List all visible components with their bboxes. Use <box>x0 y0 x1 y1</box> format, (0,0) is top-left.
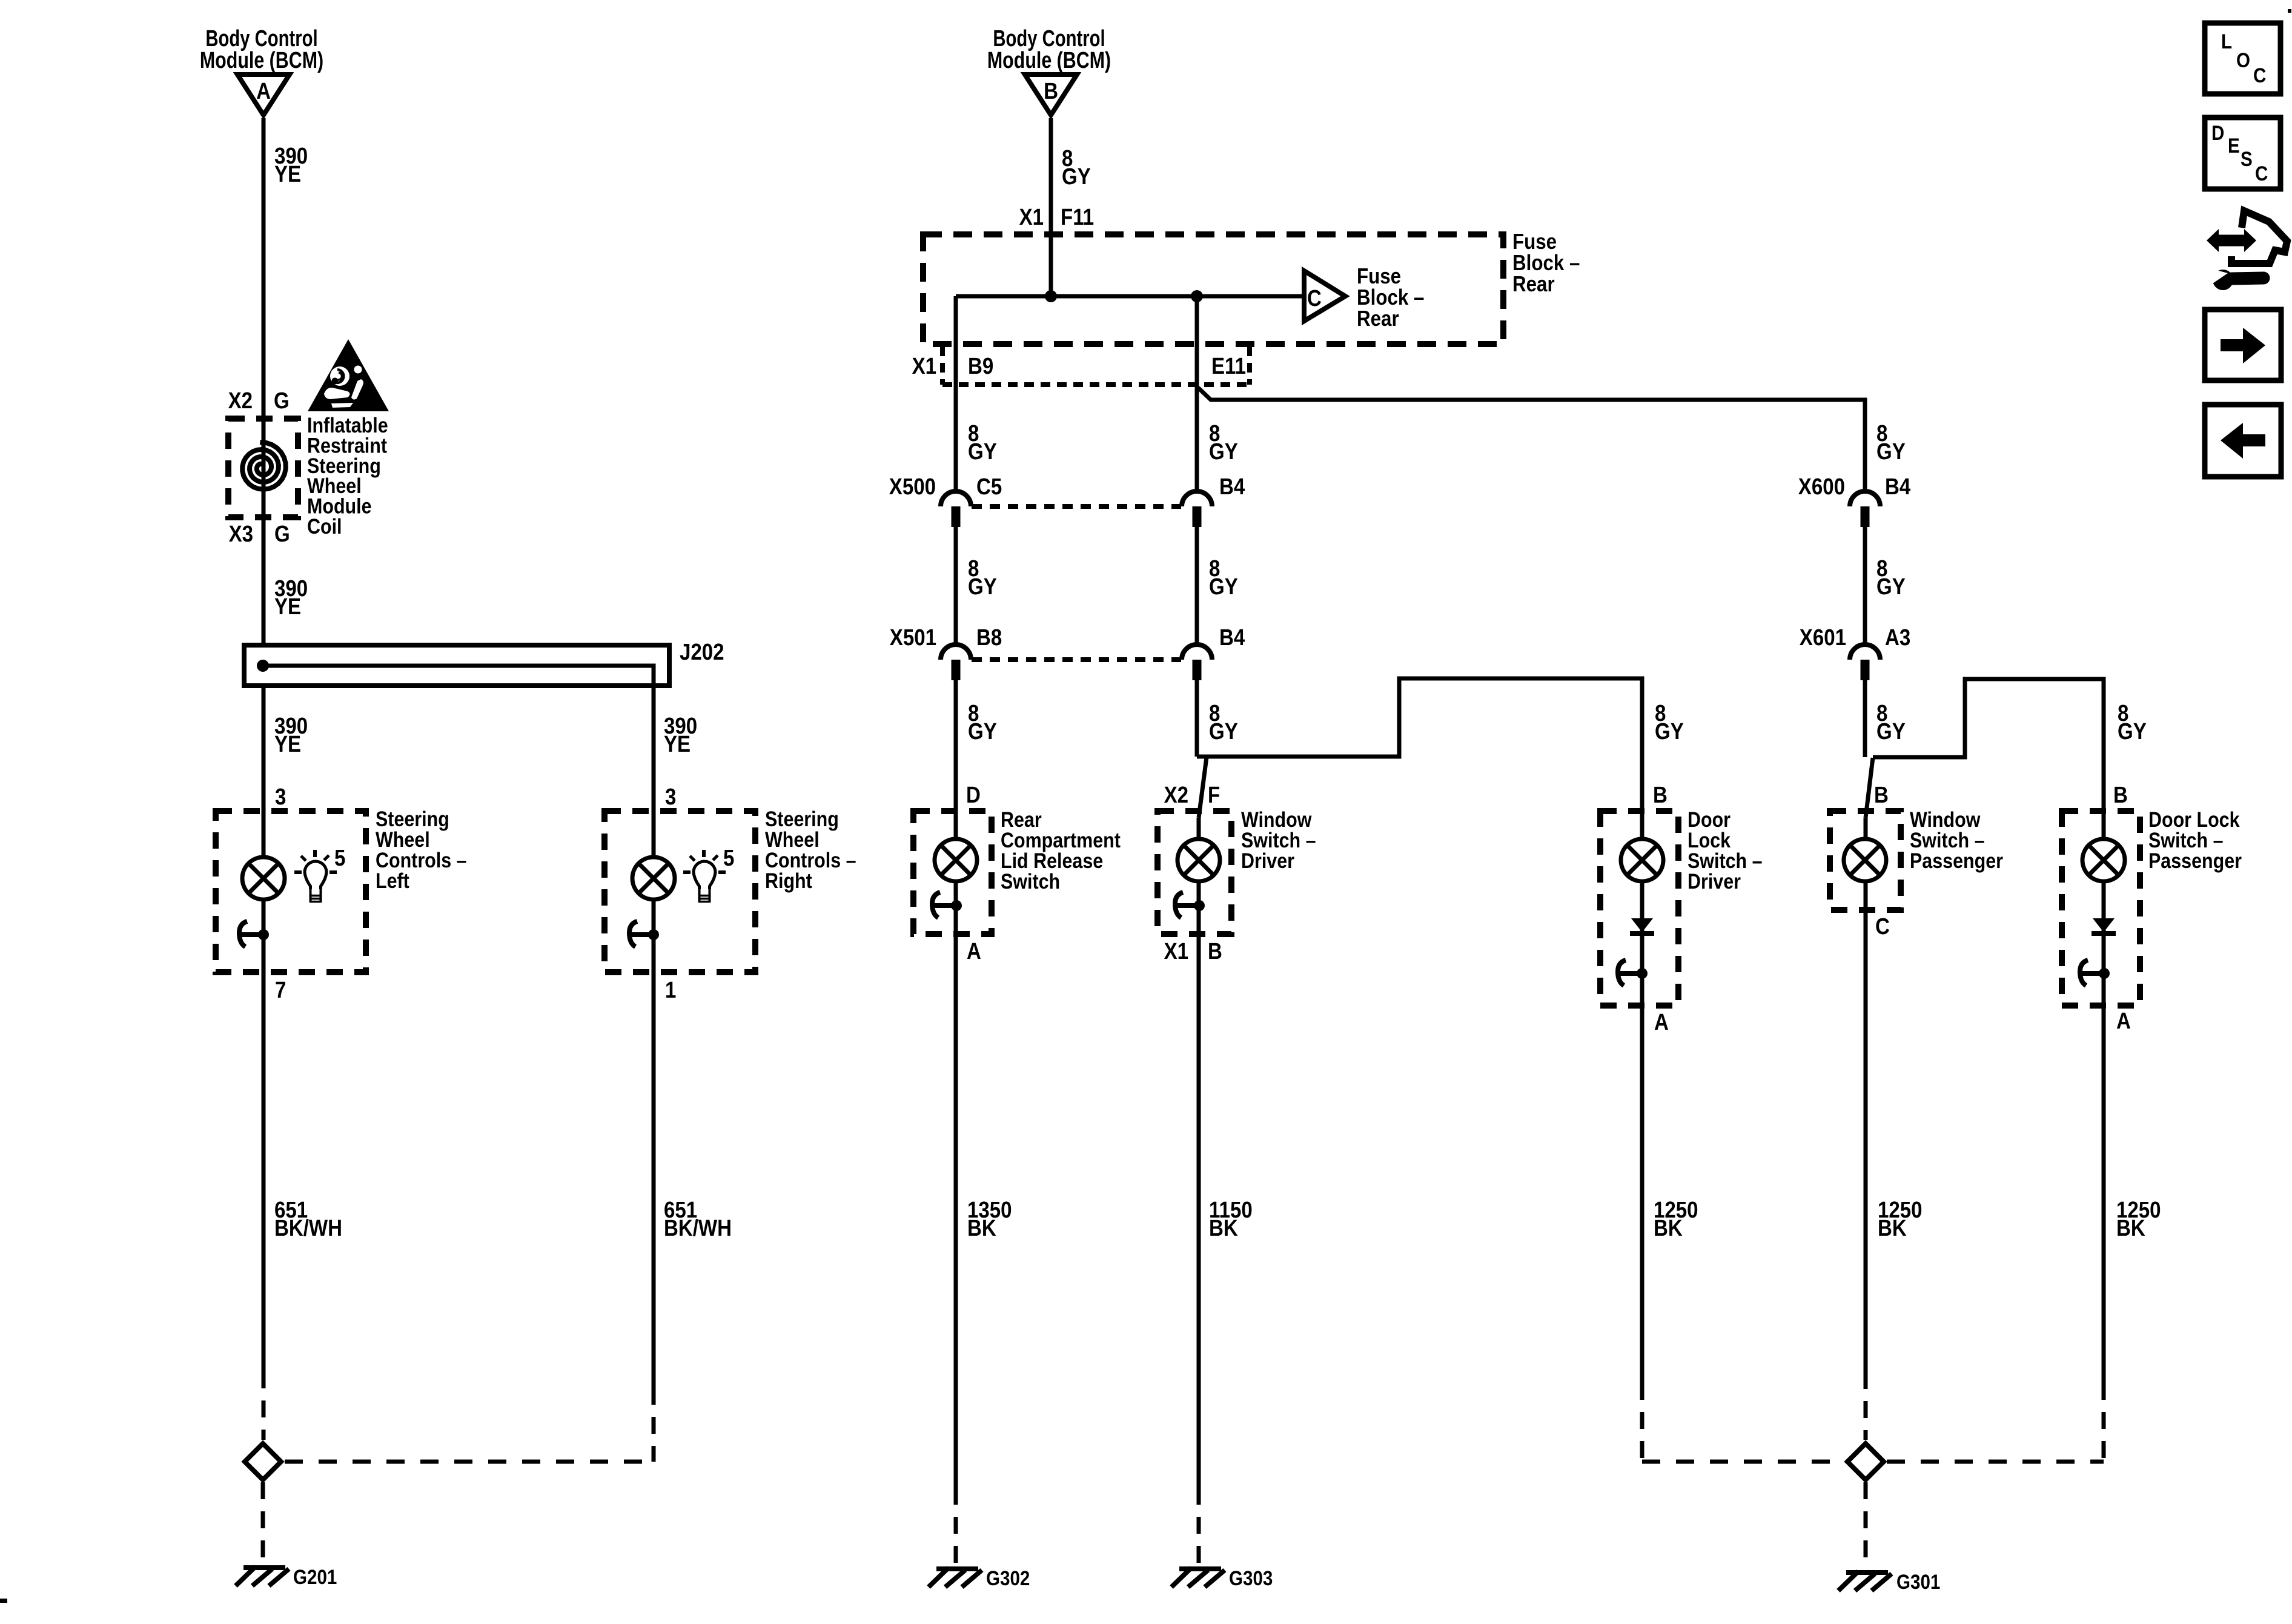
svg-text:Left: Left <box>376 869 409 892</box>
svg-text:Rear: Rear <box>1357 307 1399 331</box>
fuse block internal bus wire <box>956 294 1302 299</box>
J202 internal bus wire <box>263 666 654 686</box>
svg-text:B: B <box>1874 782 1889 808</box>
svg-text:BK: BK <box>2116 1215 2145 1241</box>
wire 390 YE from J202 to Steering Wheel Controls Left <box>262 686 266 972</box>
svg-text:L: L <box>2221 30 2232 53</box>
SWC left indicator lamp <box>242 857 285 900</box>
svg-text:B: B <box>2113 782 2128 808</box>
svg-text:A3: A3 <box>1885 625 1910 651</box>
svg-text:3: 3 <box>275 784 286 810</box>
fuse block connector X1 dashed box <box>940 346 945 385</box>
wire 1250 BK (door lock driver) <box>1640 1006 1644 1383</box>
svg-text:X2: X2 <box>228 388 253 414</box>
connector X501 B4 (right) <box>1182 645 1212 660</box>
wire 8 GY B9 to X500 <box>954 296 958 492</box>
BCM connector triangle B <box>1025 75 1077 115</box>
wire jog to door lock switch passenger <box>1873 679 2104 811</box>
component S1: Steering Wheel Controls - Left dashed box <box>216 811 366 972</box>
component S6: Window Switch - Passenger dashed box <box>1830 811 1901 910</box>
connector X601 A3 <box>1850 645 1880 660</box>
svg-text:E: E <box>2228 134 2240 157</box>
svg-text:3: 3 <box>665 784 676 810</box>
svg-text:G: G <box>274 388 290 414</box>
svg-text:G303: G303 <box>1229 1566 1273 1589</box>
wire 8 GY X501 to rear lid switch <box>954 680 958 811</box>
BCM connector triangle A <box>237 75 290 115</box>
window driver wire segment <box>1197 818 1201 934</box>
svg-text:Passenger: Passenger <box>1910 849 2003 872</box>
svg-text:D: D <box>2211 121 2224 144</box>
dashed wire to splice diamond (left) <box>262 1371 266 1440</box>
diagnostic icon wrench <box>2213 270 2233 290</box>
dashed wire to ground bus (driver) <box>1640 1383 1644 1462</box>
junction dot at E11 branch <box>1191 290 1203 302</box>
dashed wire diamond to G301 <box>1864 1482 1868 1569</box>
SWC left switch <box>239 921 247 947</box>
SWC right illumination bulb icon <box>694 861 715 889</box>
door lock passenger wire segment <box>2102 811 2106 1006</box>
svg-text:C: C <box>1875 913 1890 940</box>
forward arrow <box>2221 339 2244 351</box>
dashed ground bus horizontal (left of diamond) <box>1642 1460 1844 1464</box>
svg-text:Driver: Driver <box>1241 849 1294 872</box>
svg-text:7: 7 <box>275 977 286 1003</box>
svg-text:Passenger: Passenger <box>2148 849 2242 872</box>
svg-text:G301: G301 <box>1896 1570 1940 1593</box>
rear lid switch wire segment <box>954 811 958 934</box>
svg-text:B: B <box>1044 78 1058 104</box>
svg-text:Module (BCM): Module (BCM) <box>987 48 1111 73</box>
svg-text:Coil: Coil <box>307 514 342 538</box>
svg-text:YE: YE <box>274 161 301 187</box>
ground G302 <box>936 1566 978 1571</box>
wire diagonal into pin B (window passenger) <box>1866 758 1873 818</box>
svg-text:Right: Right <box>765 869 812 892</box>
svg-text:BK: BK <box>967 1215 996 1241</box>
svg-text:Driver: Driver <box>1688 869 1741 893</box>
svg-text:BK: BK <box>1209 1215 1238 1241</box>
dashed wire to G302 <box>954 1488 958 1565</box>
LOC icon box <box>2205 23 2280 94</box>
airbag SIR warning triangle <box>308 339 389 411</box>
ground G301 <box>1846 1570 1888 1575</box>
window driver switch contact <box>1175 892 1183 918</box>
svg-text:G: G <box>274 521 290 547</box>
splice diamond (G301 bus) <box>1847 1443 1884 1480</box>
DESC icon box <box>2205 118 2280 189</box>
svg-text:BK/WH: BK/WH <box>274 1215 342 1241</box>
svg-text:GY: GY <box>1655 718 1684 744</box>
svg-text:A: A <box>2116 1008 2131 1034</box>
wire 8 GY E11 down to X500 row <box>1195 296 1199 492</box>
svg-text:GY: GY <box>1062 164 1091 190</box>
SWC right indicator lamp <box>632 857 675 900</box>
svg-text:A: A <box>256 78 271 104</box>
svg-text:E11: E11 <box>1211 353 1246 379</box>
window passenger indicator lamp <box>1844 839 1886 881</box>
svg-text:X1: X1 <box>912 353 936 379</box>
ground G303 <box>1179 1566 1221 1571</box>
diagnostic icon double arrow <box>2216 235 2247 247</box>
wire 8 GY X600 to X601 <box>1863 527 1867 645</box>
dashed ground bus horizontal (right of diamond) <box>1887 1460 2104 1464</box>
svg-text:5: 5 <box>334 845 345 871</box>
wire 390 YE from J202 to Steering Wheel Controls Right <box>652 686 656 972</box>
svg-text:GY: GY <box>968 718 997 744</box>
svg-text:B4: B4 <box>1219 474 1245 500</box>
junction dot at F11 feed <box>1045 290 1057 302</box>
svg-text:X3: X3 <box>229 521 253 547</box>
in-line connector dashed link X500 <box>972 504 1181 509</box>
svg-text:A: A <box>967 938 981 964</box>
svg-text:X501: X501 <box>890 625 936 651</box>
svg-text:X1: X1 <box>1164 938 1188 964</box>
svg-text:C: C <box>2255 162 2268 185</box>
connector X600 B4 <box>1850 491 1880 506</box>
door lock driver wire segment <box>1640 811 1644 1006</box>
wire 8 GY X500 to X501 (right) <box>1195 527 1199 645</box>
wire 8 GY X601 to window switch passenger <box>1863 680 1867 757</box>
wire 1250 BK (door lock passenger) <box>2102 1006 2106 1383</box>
svg-text:C: C <box>2253 64 2266 87</box>
svg-text:YE: YE <box>664 731 691 757</box>
window passenger wire segment <box>1864 818 1868 910</box>
svg-text:5: 5 <box>723 845 734 871</box>
wire 390 YE from BCM A down to J202 <box>262 118 266 645</box>
SWC left illumination bulb icon <box>305 861 326 889</box>
svg-text:GY: GY <box>1876 574 1906 600</box>
svg-text:F: F <box>1208 782 1220 808</box>
svg-text:S: S <box>2241 147 2253 170</box>
svg-text:J202: J202 <box>680 639 724 665</box>
svg-text:BK/WH: BK/WH <box>664 1215 732 1241</box>
svg-text:X600: X600 <box>1798 474 1845 500</box>
svg-text:Switch: Switch <box>1001 869 1060 893</box>
back arrow <box>2242 434 2265 446</box>
svg-text:D: D <box>966 782 981 808</box>
dashed wire diamond to G201 <box>261 1482 265 1565</box>
component S4: Window Switch - Driver dashed box <box>1158 811 1231 934</box>
svg-text:GY: GY <box>1209 439 1238 465</box>
component U1: Inflatable Restraint Steering Wheel Module Coil dashed box <box>228 419 298 517</box>
svg-text:B4: B4 <box>1219 625 1245 651</box>
component S5: Door Lock Switch - Driver dashed box <box>1600 811 1678 1006</box>
diagnostic icon outline shape <box>2231 211 2287 263</box>
svg-text:GY: GY <box>1876 718 1906 744</box>
svg-text:GY: GY <box>1876 439 1906 465</box>
component S3: Rear Compartment Lid Release Switch dashed box <box>913 811 992 934</box>
svg-text:A: A <box>1654 1009 1669 1035</box>
splice pack J202 box <box>244 645 669 686</box>
svg-text:GY: GY <box>1209 574 1238 600</box>
wire 8 GY from BCM B <box>1049 118 1053 296</box>
svg-text:YE: YE <box>274 594 301 620</box>
SWC right switch <box>629 921 637 947</box>
svg-text:YE: YE <box>274 731 301 757</box>
connector X501 B8 <box>941 645 971 660</box>
wire 8 GY E11 to X600 (jog) <box>1198 388 1865 492</box>
back arrow icon box <box>2205 405 2281 477</box>
door lock driver diode <box>1631 918 1653 932</box>
door lock passenger switch contact <box>2080 960 2088 986</box>
svg-text:B9: B9 <box>968 353 993 379</box>
wire 8 GY X500 to X501 (left) <box>954 527 958 645</box>
svg-text:B8: B8 <box>976 625 1002 651</box>
svg-text:GY: GY <box>2118 718 2147 744</box>
junction dot at J202 input <box>257 660 269 672</box>
splice diamond (G201 bus) <box>245 1443 281 1480</box>
component S2: Steering Wheel Controls - Right dashed box <box>604 811 755 972</box>
connector X500 C5 <box>941 491 971 506</box>
svg-text:C5: C5 <box>976 474 1002 500</box>
in-line connector dashed link X501 <box>972 657 1181 662</box>
window driver indicator lamp <box>1177 839 1220 881</box>
rear lid switch indicator lamp <box>935 839 977 881</box>
wire diagonal into pin F <box>1199 757 1207 818</box>
svg-text:F11: F11 <box>1061 204 1094 230</box>
svg-text:X500: X500 <box>889 474 936 500</box>
wire 8 GY X501-B4 to window switch driver <box>1195 680 1199 757</box>
svg-text:G201: G201 <box>293 1565 337 1588</box>
component S7: Door Lock Switch - Passenger dashed box <box>2062 811 2140 1006</box>
connector X500 B4 (right) <box>1182 491 1212 506</box>
dashed ground bus wire (horizontal to SWC right) <box>285 1460 654 1464</box>
Fuse Block - Rear dashed box <box>923 234 1503 344</box>
dashed wire down to ground bus (right SWC) <box>652 1388 656 1462</box>
wire jog to door lock switch driver <box>1197 678 1642 811</box>
svg-text:B4: B4 <box>1885 474 1910 500</box>
wire 1250 BK (window passenger) <box>1864 910 1868 1372</box>
svg-text:X2: X2 <box>1164 782 1188 808</box>
door lock driver switch contact <box>1618 960 1626 986</box>
svg-text:G302: G302 <box>986 1566 1030 1589</box>
door lock driver indicator lamp <box>1621 839 1663 881</box>
svg-text:BK: BK <box>1654 1215 1683 1241</box>
svg-text:Module (BCM): Module (BCM) <box>200 48 323 73</box>
wire 651 BK/WH (right) <box>652 972 656 1388</box>
svg-text:C: C <box>1307 285 1322 311</box>
door lock passenger diode <box>2093 918 2115 932</box>
svg-text:Rear: Rear <box>1512 272 1555 297</box>
svg-text:1: 1 <box>665 977 676 1003</box>
wire 1350 BK <box>954 934 958 1488</box>
svg-text:B: B <box>1653 782 1668 808</box>
dashed wire to ground bus (door lock passenger) <box>2102 1383 2106 1462</box>
coil spiral symbol <box>242 442 285 489</box>
svg-text:X601: X601 <box>1800 625 1846 651</box>
svg-text:BK: BK <box>1878 1215 1907 1241</box>
fuse block output triangle C <box>1304 271 1345 321</box>
door lock passenger indicator lamp <box>2082 839 2125 881</box>
svg-text:O: O <box>2236 48 2250 71</box>
svg-text:B: B <box>1208 938 1222 964</box>
ground G201 <box>243 1565 285 1570</box>
dashed wire to splice diamond (window passenger) <box>1864 1372 1868 1440</box>
wire 651 BK/WH (left) <box>262 972 266 1371</box>
svg-text:X1: X1 <box>1019 204 1044 230</box>
rear lid switch contact <box>932 892 940 918</box>
forward arrow icon box <box>2205 310 2281 380</box>
dashed wire to G303 <box>1197 1488 1201 1565</box>
svg-text:GY: GY <box>968 439 997 465</box>
wire 1150 BK <box>1197 934 1201 1488</box>
svg-text:GY: GY <box>968 574 997 600</box>
svg-text:GY: GY <box>1209 718 1238 744</box>
